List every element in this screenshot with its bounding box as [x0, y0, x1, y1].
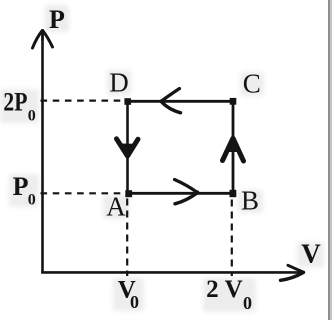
svg-text:P: P	[13, 172, 29, 201]
svg-text:P: P	[49, 5, 65, 34]
svg-text:2P: 2P	[3, 88, 27, 117]
svg-text:D: D	[109, 68, 129, 98]
svg-text:V: V	[301, 239, 321, 269]
svg-text:2: 2	[206, 276, 219, 303]
svg-text:0: 0	[130, 292, 139, 312]
svg-text:B: B	[241, 185, 259, 215]
svg-text:0: 0	[28, 108, 36, 125]
svg-text:C: C	[243, 68, 261, 98]
svg-text:0: 0	[243, 293, 252, 313]
svg-text:0: 0	[28, 192, 36, 209]
svg-text:A: A	[106, 192, 126, 222]
svg-text:V: V	[225, 276, 243, 303]
